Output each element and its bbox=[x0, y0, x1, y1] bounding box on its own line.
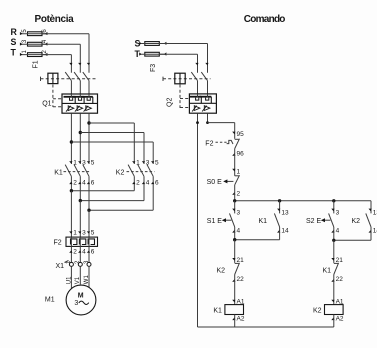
terminal tick K1 pole top 1 bbox=[69, 161, 72, 164]
svg-text:2: 2 bbox=[73, 179, 77, 186]
Q2 link end tick bbox=[162, 77, 164, 81]
K1 mechanical link dashed bbox=[64, 171, 91, 173]
fuse F1 pole 3 bbox=[28, 53, 43, 57]
Q1 dashed stub lower bbox=[53, 106, 62, 108]
breaker Q2 contact pole 1 bbox=[191, 72, 197, 81]
fuse F3 pole 2 bbox=[145, 52, 160, 56]
svg-text:22: 22 bbox=[336, 276, 344, 283]
fuse F1 pole 1 bbox=[28, 32, 43, 36]
tick F3 pole1 right bbox=[164, 42, 167, 45]
svg-text:V1: V1 bbox=[75, 276, 81, 284]
terminal tick Q1 pole 1 bbox=[69, 63, 72, 66]
F2 internal wire pole 3 bbox=[88, 237, 90, 246]
wire S vertical to Q1 bbox=[79, 44, 81, 72]
F2 release dashed link bbox=[216, 141, 227, 143]
svg-text:1: 1 bbox=[73, 229, 77, 236]
svg-text:1: 1 bbox=[237, 169, 241, 176]
terminal tick K1 22 bbox=[331, 279, 334, 282]
breaker Q1 contact pole 1 bbox=[65, 72, 71, 81]
motor tilde wave bbox=[79, 301, 89, 304]
svg-text:M1: M1 bbox=[45, 296, 55, 303]
svg-text:3: 3 bbox=[237, 209, 241, 216]
Q2 actuator dashed vertical bbox=[179, 85, 181, 109]
terminal tick K2 A1 bbox=[331, 300, 334, 303]
Q2 breaker box bbox=[189, 94, 216, 113]
node bus at S2 bbox=[332, 199, 335, 202]
wire K1 aux merge horizontal bbox=[235, 239, 280, 241]
wire K1 interlock to K2 coil bbox=[333, 275, 335, 305]
terminal tick left F1 pole 3 bbox=[20, 53, 23, 56]
X1 pointer tick bbox=[65, 261, 69, 263]
Q2 internal wire pole 2 bbox=[207, 94, 209, 97]
svg-text:96: 96 bbox=[237, 151, 245, 158]
wire control T horizontal bbox=[160, 53, 198, 55]
wire K1 pole 2 down bbox=[79, 176, 81, 200]
Q1 actuator dashed vertical bbox=[52, 85, 54, 108]
contact K2 NC interlock bbox=[235, 262, 239, 264]
F2 thermal release symbol bbox=[227, 140, 233, 144]
node merge K1 K2 out 3 bbox=[87, 209, 90, 212]
terminal tick F2 top 2 bbox=[78, 231, 81, 234]
svg-text:6: 6 bbox=[155, 179, 159, 186]
terminal tick right F1 pole 1 bbox=[45, 32, 48, 35]
terminal tick F2 bottom 1 bbox=[69, 250, 72, 253]
contact K1 NC interlock bbox=[334, 262, 338, 264]
node branch T to K2 bbox=[70, 140, 73, 143]
Q1 link end tick bbox=[40, 77, 42, 81]
wire phase2 to F2 bbox=[79, 201, 81, 238]
svg-text:4: 4 bbox=[82, 179, 86, 186]
Q2 trip elements pole 2 bbox=[200, 96, 212, 98]
wire S to K2 pole2 horizontal bbox=[80, 132, 144, 134]
svg-text:3: 3 bbox=[74, 300, 78, 307]
Q1 internal wire pole 2 bbox=[79, 94, 81, 97]
terminal tick K2 A2 bbox=[331, 318, 334, 321]
terminal tick left F1 pole 2 bbox=[20, 42, 23, 45]
svg-text:K1: K1 bbox=[213, 307, 222, 314]
terminal tick S0 1 bbox=[232, 169, 235, 172]
wire F2 to X1 pole 1 bbox=[70, 246, 72, 262]
terminal tick K1 A2 bbox=[232, 318, 235, 321]
svg-text:6: 6 bbox=[91, 249, 95, 256]
terminal tick K2 pole bottom 1 bbox=[132, 182, 135, 185]
Q1 box divider bbox=[62, 102, 98, 104]
terminal tick S0 2 bbox=[232, 192, 235, 195]
Q2 box divider bbox=[189, 102, 216, 104]
svg-text:2: 2 bbox=[136, 179, 140, 186]
svg-text:T: T bbox=[11, 48, 17, 58]
wire F2 to X1 pole 2 bbox=[79, 246, 81, 262]
F2 heater element pole 1 bbox=[71, 239, 77, 245]
node branch S to K2 bbox=[79, 131, 82, 134]
wire S1 to merge bbox=[234, 227, 236, 240]
coil K1 bbox=[225, 305, 244, 315]
svg-text:22: 22 bbox=[237, 276, 245, 283]
terminal tick Q2 pole 2 bbox=[205, 63, 208, 66]
terminal tick left F1 pole 1 bbox=[20, 32, 23, 35]
svg-text:M: M bbox=[78, 292, 84, 299]
svg-text:S1 E: S1 E bbox=[207, 218, 223, 225]
node merge S2 K2aux bbox=[332, 239, 335, 242]
svg-text:S: S bbox=[11, 37, 17, 47]
Q2 internal wire pole 1 bbox=[197, 94, 199, 97]
wire T below Q1 bbox=[70, 113, 72, 164]
Q2 actuator box bbox=[175, 73, 185, 84]
terminal tick Q2 pole 1 bbox=[195, 63, 198, 66]
Q1 internal wire pole 1 bbox=[70, 94, 72, 97]
wire bus to S1 bbox=[234, 201, 236, 214]
tick F3 pole2 right bbox=[164, 52, 167, 55]
terminal tick S2 4 bbox=[331, 230, 334, 233]
node return line mark bbox=[196, 121, 199, 124]
svg-text:F2: F2 bbox=[54, 239, 62, 246]
svg-text:K1: K1 bbox=[259, 218, 268, 225]
S0 actuator arrow bbox=[223, 179, 227, 183]
fuse F1 pole 2 bbox=[28, 42, 43, 46]
wire bottom rail bbox=[198, 326, 334, 328]
wire control feed horizontal bbox=[208, 122, 235, 124]
svg-text:1: 1 bbox=[73, 159, 77, 166]
contact F2 NC bbox=[235, 138, 239, 140]
wire bus to K1 aux bbox=[279, 201, 281, 214]
svg-text:W1: W1 bbox=[84, 275, 90, 285]
terminal tick Q1 pole 3 bbox=[87, 63, 90, 66]
contact K1 aux NO bbox=[274, 213, 279, 227]
wire S2 to merge bbox=[333, 227, 335, 240]
Q2 actuator vertical bbox=[179, 73, 181, 84]
wire phase3 to F2 bbox=[88, 210, 90, 237]
Q1 trip elements pole 2 bbox=[72, 96, 84, 98]
terminal tick K2 pole bottom 2 bbox=[142, 182, 145, 185]
svg-text:3: 3 bbox=[82, 229, 86, 236]
terminal tick F2 bottom 2 bbox=[78, 250, 81, 253]
svg-text:5: 5 bbox=[91, 229, 95, 236]
node control feed corner bbox=[206, 121, 209, 124]
terminal tick K2 pole top 2 bbox=[142, 161, 145, 164]
wire K2 aux merge horizontal bbox=[334, 239, 371, 241]
contactor K1 contact pole 1 bbox=[65, 165, 71, 177]
terminal tick S1 3 bbox=[232, 209, 235, 212]
wire Q1 pole 1 to box bbox=[70, 81, 72, 94]
wire S horizontal bbox=[42, 43, 80, 45]
svg-text:K1: K1 bbox=[323, 268, 332, 275]
svg-text:K2: K2 bbox=[116, 170, 125, 177]
svg-text:4: 4 bbox=[336, 228, 340, 235]
svg-text:K2: K2 bbox=[217, 268, 226, 275]
node merge S1 K1aux bbox=[233, 238, 236, 241]
svg-text:5: 5 bbox=[155, 159, 159, 166]
motor M1 circle bbox=[66, 285, 96, 315]
contact S1 NO bbox=[230, 213, 235, 227]
node bus at S1 bbox=[233, 199, 236, 202]
terminal tick F2 96 bbox=[232, 153, 235, 156]
wire R horizontal bbox=[42, 33, 89, 35]
terminal tick K1 pole top 3 bbox=[87, 161, 90, 164]
F2 internal wire pole 1 bbox=[70, 237, 72, 246]
terminal tick K2 22 bbox=[232, 279, 235, 282]
wire control feed to F2 contact bbox=[234, 123, 236, 139]
terminal tick K1 aux 14 bbox=[277, 230, 280, 233]
contactor K1 contact pole 3 bbox=[83, 165, 89, 177]
svg-text:Q2: Q2 bbox=[167, 98, 174, 107]
terminal tick K2 aux 13 bbox=[369, 209, 372, 212]
svg-text:13: 13 bbox=[373, 209, 377, 216]
svg-text:3: 3 bbox=[336, 209, 340, 216]
wire K1 pole 3 down bbox=[88, 176, 90, 210]
terminal tick K1 aux 13 bbox=[277, 209, 280, 212]
wire K1 pole 1 down bbox=[70, 176, 72, 190]
terminal tick F2 top 3 bbox=[87, 231, 90, 234]
F2 overload box bbox=[66, 237, 98, 246]
S0 actuator line bbox=[226, 180, 233, 182]
node bus at K1 aux bbox=[278, 199, 281, 202]
wire K2 pole1 vertical bbox=[133, 123, 135, 164]
wire K2 pole3 vertical bbox=[152, 142, 154, 164]
contact K2 aux NO bbox=[366, 213, 371, 227]
terminal tick S2 3 bbox=[331, 209, 334, 212]
wire control T vertical bbox=[197, 54, 199, 72]
wire Q1 pole 3 to box bbox=[88, 81, 90, 94]
svg-text:5: 5 bbox=[91, 159, 95, 166]
terminal tick F2 95 bbox=[232, 132, 235, 135]
svg-text:A2: A2 bbox=[336, 316, 344, 323]
svg-text:K2: K2 bbox=[313, 307, 322, 314]
svg-text:A2: A2 bbox=[237, 316, 245, 323]
wire R to K2 pole1 horizontal bbox=[89, 122, 134, 124]
tick F3 pole2 left bbox=[139, 52, 142, 55]
Q2 mechanical link dashed bbox=[163, 78, 211, 80]
wire T vertical to Q1 bbox=[70, 55, 72, 73]
wire bus to K2 aux bbox=[370, 201, 372, 214]
terminal tick K2 21 bbox=[232, 258, 235, 261]
terminal tick K1 pole bottom 3 bbox=[87, 182, 90, 185]
S1 actuator arrow bbox=[222, 218, 226, 222]
contactor K2 contact pole 3 bbox=[147, 165, 153, 177]
contactor K2 contact pole 1 bbox=[128, 165, 134, 177]
contactor K2 contact pole 2 bbox=[138, 165, 144, 177]
svg-text:2: 2 bbox=[73, 249, 77, 256]
S1 actuator line bbox=[225, 219, 232, 221]
svg-text:S2 E: S2 E bbox=[306, 218, 322, 225]
wire bus to S2 bbox=[333, 201, 335, 214]
wire K2 pole 3 down bbox=[152, 176, 154, 210]
F2 heater element pole 2 bbox=[79, 239, 85, 245]
svg-text:4: 4 bbox=[82, 249, 86, 256]
Q1 dashed stub upper bbox=[53, 98, 62, 100]
terminal tick K1 pole top 2 bbox=[78, 161, 81, 164]
X1 terminal circle 1 bbox=[69, 262, 73, 266]
wire R below Q1 bbox=[88, 113, 90, 164]
wire S0 to bus bbox=[234, 185, 236, 201]
wire X1 to motor 2 bbox=[79, 266, 81, 284]
svg-text:21: 21 bbox=[237, 257, 245, 264]
svg-text:14: 14 bbox=[373, 228, 377, 235]
wire T to K2 pole3 horizontal bbox=[71, 141, 153, 143]
svg-text:U1: U1 bbox=[66, 276, 72, 284]
wire F2 to X1 pole 3 bbox=[88, 246, 90, 262]
svg-text:X1: X1 bbox=[56, 263, 65, 270]
breaker Q1 contact pole 3 bbox=[83, 72, 89, 81]
wire K2 pole 1 down bbox=[133, 176, 135, 190]
wire X1 to motor 3 bbox=[88, 266, 90, 288]
svg-text:4: 4 bbox=[146, 179, 150, 186]
terminal tick K2 aux 14 bbox=[369, 230, 372, 233]
wire X1 to motor 1 bbox=[70, 266, 72, 288]
wire K2 out 3 merge horizontal bbox=[89, 209, 153, 211]
Q2 dashed stub upper bbox=[180, 98, 189, 100]
wire control bus bbox=[235, 200, 371, 202]
terminal tick Q1 pole 2 bbox=[78, 63, 81, 66]
contact S2 NO bbox=[329, 213, 334, 227]
wire return line bbox=[197, 113, 199, 327]
wire K2 coil to rail bbox=[333, 315, 335, 328]
K2 mechanical link dashed bbox=[127, 171, 155, 173]
svg-text:F3: F3 bbox=[150, 64, 157, 72]
contact S0 NC bbox=[235, 175, 239, 177]
Q2 trip elements pole 1 bbox=[190, 96, 202, 98]
terminal tick K2 pole top 3 bbox=[151, 161, 154, 164]
wire K2 interlock to K1 coil bbox=[234, 275, 236, 305]
node merge K1 K2 out 1 bbox=[70, 189, 73, 192]
wire K1 coil to rail bbox=[234, 315, 236, 328]
terminal tick K1 pole bottom 1 bbox=[69, 182, 72, 185]
wire K1 aux down bbox=[279, 227, 281, 240]
fuse F3 pole 1 bbox=[145, 42, 160, 46]
Q1 mechanical link dashed bbox=[41, 78, 96, 80]
svg-text:Comando: Comando bbox=[244, 14, 285, 25]
wire control feed down bbox=[207, 113, 209, 122]
wire K2 pole 2 down bbox=[143, 176, 145, 200]
Q1 trip elements pole 3 bbox=[81, 96, 93, 98]
svg-text:95: 95 bbox=[237, 131, 245, 138]
contactor K1 contact pole 2 bbox=[74, 165, 80, 177]
wire Q1 pole 2 to box bbox=[79, 81, 81, 94]
F2 heater element pole 3 bbox=[88, 239, 94, 245]
Q1 breaker box bbox=[62, 94, 98, 113]
wire S below Q1 bbox=[79, 113, 81, 164]
wire control S horizontal bbox=[160, 43, 208, 45]
svg-text:4: 4 bbox=[237, 228, 241, 235]
terminal tick K1 pole bottom 2 bbox=[78, 182, 81, 185]
node merge K1 K2 out 2 bbox=[79, 199, 82, 202]
wire T horizontal bbox=[42, 54, 71, 56]
breaker Q1 contact pole 2 bbox=[74, 72, 80, 81]
svg-text:13: 13 bbox=[281, 209, 289, 216]
wire Q2 pole 1 to box bbox=[197, 81, 199, 94]
svg-text:K1: K1 bbox=[54, 170, 63, 177]
wire K2 aux down bbox=[370, 227, 372, 240]
wire R vertical to Q1 bbox=[88, 34, 90, 73]
S2 actuator line bbox=[324, 219, 331, 221]
svg-text:F1: F1 bbox=[33, 60, 40, 68]
wire K2 pole2 vertical bbox=[143, 133, 145, 165]
coil K2 bbox=[325, 305, 344, 315]
wire K2 out 2 merge horizontal bbox=[80, 200, 144, 202]
svg-text:Potència: Potència bbox=[35, 14, 75, 25]
node branch R to K2 bbox=[87, 121, 90, 124]
terminal tick K2 pole top 1 bbox=[132, 161, 135, 164]
svg-text:6: 6 bbox=[91, 179, 95, 186]
svg-text:F2: F2 bbox=[205, 140, 213, 147]
wire control S vertical bbox=[207, 44, 209, 73]
Q1 internal wire pole 3 bbox=[88, 94, 90, 97]
terminal tick F2 bottom 3 bbox=[87, 250, 90, 253]
terminal tick S1 4 bbox=[232, 230, 235, 233]
Q1 actuator vertical bbox=[52, 73, 54, 83]
terminal tick K2 pole bottom 3 bbox=[151, 182, 154, 185]
svg-text:2: 2 bbox=[237, 191, 241, 198]
X1 terminal circle 2 bbox=[78, 262, 82, 266]
svg-text:K2: K2 bbox=[352, 218, 361, 225]
terminal tick K1 A1 bbox=[232, 300, 235, 303]
wire K2 out 1 merge horizontal bbox=[71, 190, 134, 192]
svg-text:21: 21 bbox=[336, 257, 344, 264]
svg-text:R: R bbox=[11, 27, 18, 37]
terminal tick K1 21 bbox=[331, 258, 334, 261]
svg-text:S0 E: S0 E bbox=[207, 179, 223, 186]
wire merge to K2 interlock bbox=[234, 240, 236, 263]
Q1 trip elements pole 1 bbox=[64, 96, 76, 98]
wire merge to K1 interlock bbox=[333, 240, 335, 263]
S2 actuator arrow bbox=[321, 218, 325, 222]
terminal tick F2 top 1 bbox=[69, 231, 72, 234]
tick F3 pole1 left bbox=[139, 42, 142, 45]
terminal tick right F1 pole 3 bbox=[45, 53, 48, 56]
breaker Q2 contact pole 2 bbox=[201, 72, 207, 81]
Q2 dashed stub lower bbox=[180, 107, 189, 109]
svg-text:Q1: Q1 bbox=[42, 100, 51, 107]
terminal tick right F1 pole 2 bbox=[45, 42, 48, 45]
wire F2 to S0 bbox=[234, 149, 236, 176]
Q1 actuator box bbox=[48, 73, 58, 83]
wire phase1 to F2 bbox=[70, 191, 72, 237]
X1 terminal circle 3 bbox=[87, 262, 91, 266]
wire Q2 pole 2 to box bbox=[207, 81, 209, 94]
F2 internal wire pole 2 bbox=[79, 237, 81, 246]
svg-text:14: 14 bbox=[281, 228, 289, 235]
